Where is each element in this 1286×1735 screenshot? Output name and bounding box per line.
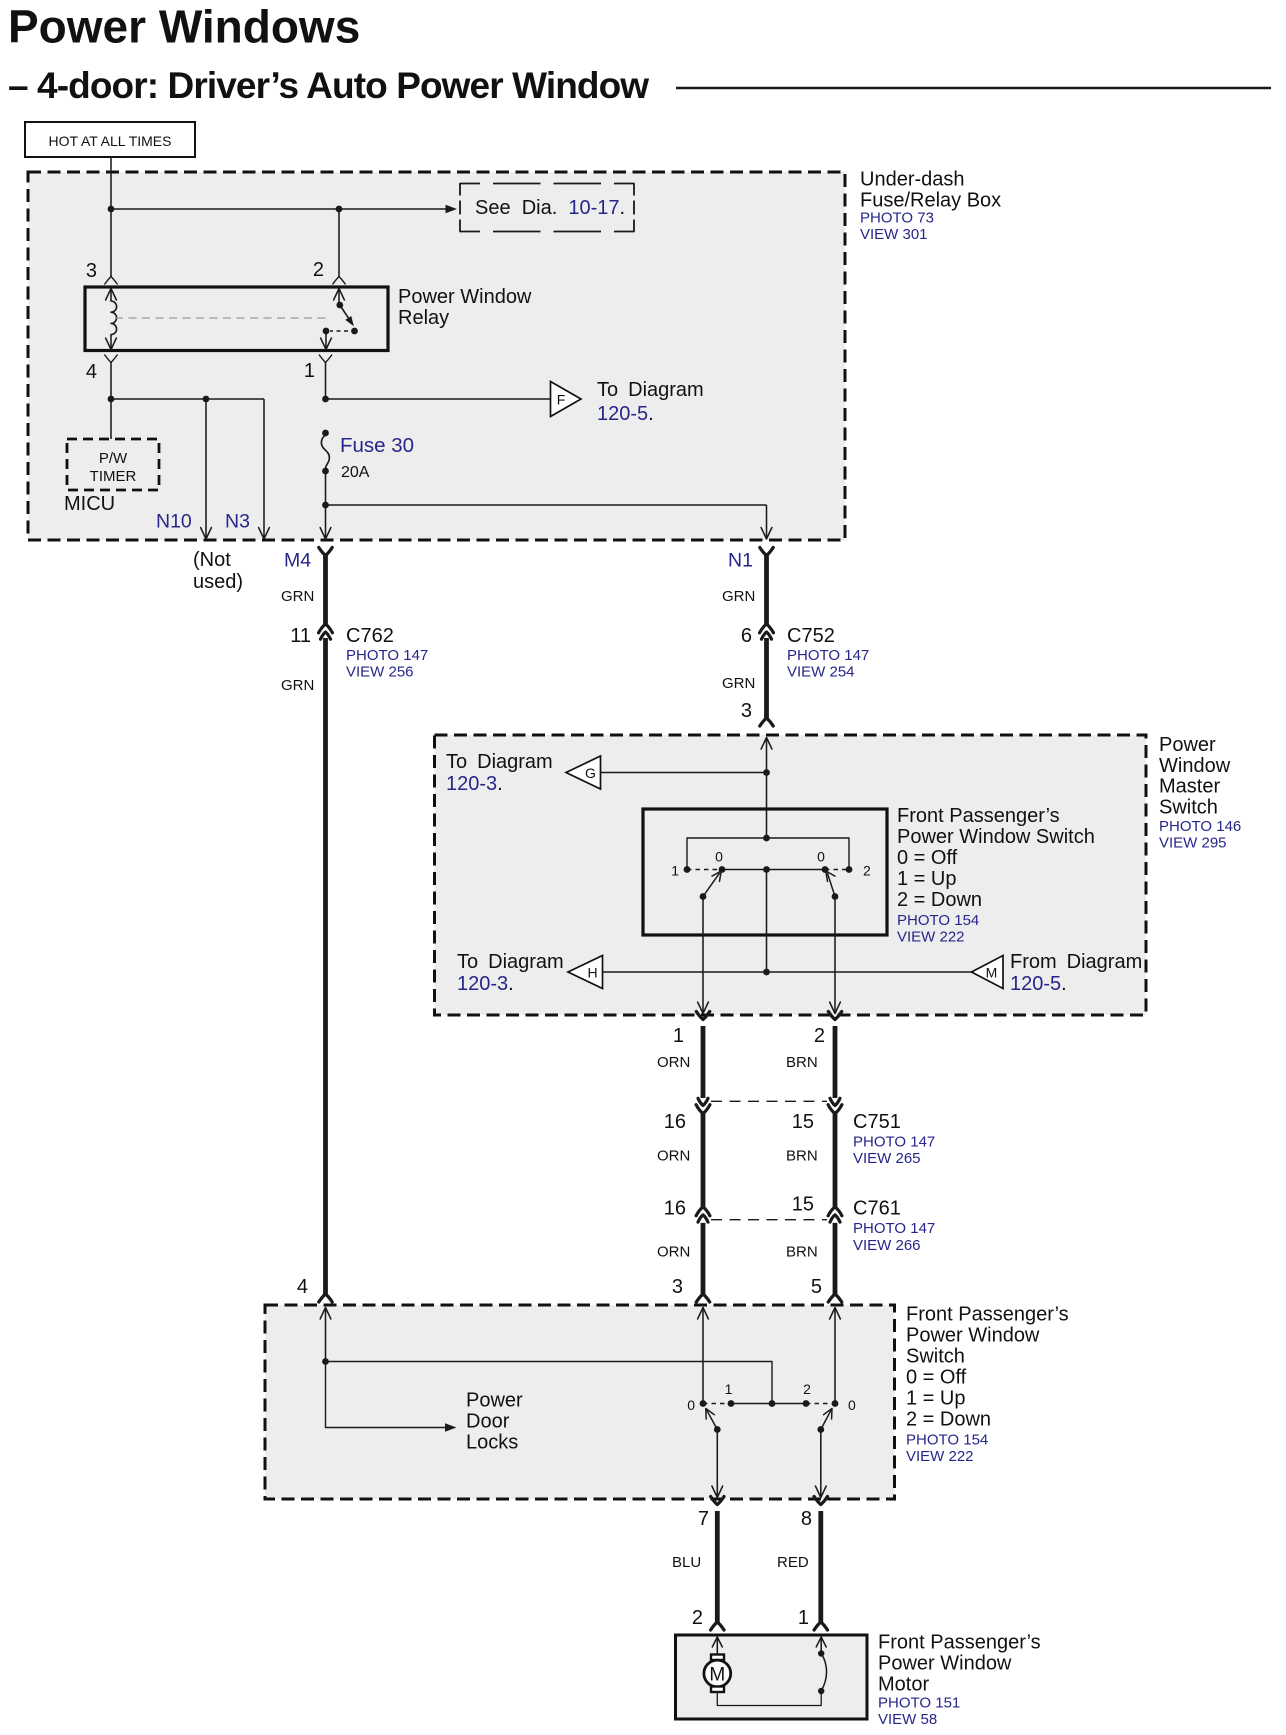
relay internal dashed link	[115, 317, 331, 319]
relay switch common node	[336, 302, 343, 309]
wire fuse to M4/N1 branch	[325, 471, 327, 539]
svg-text:PHOTO 147: PHOTO 147	[853, 1134, 935, 1151]
svg-text:PHOTO 146: PHOTO 146	[1159, 818, 1241, 835]
svg-text:Locks: Locks	[466, 1432, 518, 1454]
svg-text:0 = Off: 0 = Off	[897, 847, 958, 869]
svg-text:G: G	[585, 765, 596, 781]
contact 1 node	[684, 866, 691, 873]
contact 2 node	[846, 866, 853, 873]
power door locks branch	[326, 1362, 446, 1428]
svg-text:C762: C762	[346, 625, 394, 647]
master switch pin 3 entry arrow	[761, 738, 772, 750]
power window relay box	[85, 287, 388, 351]
cap into motor right	[814, 1622, 827, 1630]
svg-text:PHOTO 147: PHOTO 147	[346, 647, 428, 664]
triangle connector M	[972, 956, 1004, 989]
svg-text:15: 15	[792, 1194, 814, 1216]
M4 exit arrow	[320, 528, 331, 540]
master switch pin 2 cap	[828, 1012, 841, 1020]
relay switch pin 2 entry arrow	[334, 289, 345, 301]
svg-text:Power Window: Power Window	[906, 1325, 1040, 1347]
svg-text:BRN: BRN	[786, 1244, 818, 1261]
svg-text:VIEW 265: VIEW 265	[853, 1150, 921, 1167]
wire BRN C751 to C761	[833, 1114, 838, 1208]
svg-text:PHOTO 154: PHOTO 154	[897, 912, 979, 929]
svg-text:Switch: Switch	[1159, 796, 1218, 818]
svg-text:Power: Power	[466, 1390, 523, 1412]
svg-text:Master: Master	[1159, 776, 1220, 798]
wire GRN C752 to master switch	[764, 638, 769, 718]
pin 5 entry arrow	[830, 1308, 841, 1320]
svg-text:Power Window: Power Window	[398, 286, 532, 308]
node junction relay pin 2	[336, 206, 343, 213]
svg-text:N3: N3	[225, 511, 250, 533]
connector C751 left	[698, 1098, 708, 1105]
wire RED to motor	[818, 1511, 823, 1622]
N1 exit arrow	[761, 528, 772, 540]
svg-text:Fuse/Relay Box: Fuse/Relay Box	[860, 190, 1001, 212]
svg-text:16: 16	[664, 1111, 686, 1133]
relay switch movable contact	[340, 305, 351, 322]
svg-text:3: 3	[741, 700, 752, 722]
contact 0 left node	[700, 1400, 707, 1407]
wire relay pin 4 down	[110, 363, 112, 400]
svg-text:GRN: GRN	[281, 588, 314, 605]
svg-text:To Diagram: To Diagram	[446, 751, 553, 773]
fuse 30 20A	[322, 430, 329, 437]
subtitle rule	[676, 87, 1271, 90]
svg-text:M: M	[709, 1665, 725, 1686]
wire to diagram F triangle	[326, 398, 551, 400]
pin 8 cap	[814, 1497, 827, 1505]
connector C762	[319, 624, 333, 633]
connector C751 dashed pairing	[711, 1100, 827, 1102]
node junction to See Dia	[108, 206, 115, 213]
connector M4 cap	[319, 548, 332, 556]
wire ORN C751 to C761	[701, 1114, 706, 1208]
svg-text:120-3.: 120-3.	[457, 973, 514, 995]
pin 3 entry arrow	[698, 1308, 709, 1320]
left switch arm	[707, 1410, 718, 1429]
svg-text:3: 3	[672, 1276, 683, 1298]
svg-text:PHOTO 147: PHOTO 147	[787, 647, 869, 664]
relay switch contact node	[351, 328, 358, 335]
svg-text:2: 2	[814, 1025, 825, 1047]
svg-text:M4: M4	[284, 550, 311, 572]
dashed link 1-0	[687, 869, 722, 871]
svg-text:C761: C761	[853, 1198, 901, 1220]
center row wire	[722, 869, 825, 871]
wire from HOT AT ALL TIMES to relay pin 3	[110, 157, 112, 277]
svg-text:5: 5	[811, 1276, 822, 1298]
wire N3 (not used)	[263, 399, 265, 539]
right arm wire down	[834, 897, 836, 1014]
relay switch pin 1 exit arrow	[325, 331, 327, 349]
svg-text:Switch: Switch	[906, 1346, 965, 1368]
wire to triangle G	[601, 772, 767, 774]
wire BRN to C751	[833, 1026, 838, 1098]
row wire	[731, 1403, 806, 1405]
triangle connector F	[551, 382, 582, 417]
svg-text:20A: 20A	[341, 464, 370, 481]
P/W TIMER box	[67, 439, 159, 490]
contact 2 node	[803, 1400, 810, 1407]
svg-text:ORN: ORN	[657, 1148, 690, 1165]
svg-text:0 = Off: 0 = Off	[906, 1367, 967, 1389]
connector cap into lower switch	[319, 1294, 332, 1302]
triangle connector H	[568, 956, 603, 989]
wire BRN C761 to passenger switch	[833, 1223, 838, 1294]
svg-text:Power: Power	[1159, 734, 1216, 756]
svg-text:Window: Window	[1159, 755, 1231, 777]
svg-text:PHOTO 147: PHOTO 147	[853, 1220, 935, 1237]
svg-text:1: 1	[671, 863, 679, 879]
svg-text:ORN: ORN	[657, 1054, 690, 1071]
cap into lower switch left	[696, 1294, 709, 1302]
svg-text:1 = Up: 1 = Up	[906, 1388, 965, 1410]
svg-text:BRN: BRN	[786, 1148, 818, 1165]
front passenger power window motor box	[676, 1635, 868, 1719]
wire GRN M4 to C762	[323, 553, 328, 625]
node center	[763, 969, 770, 976]
svg-text:6: 6	[741, 625, 752, 647]
left switch arm	[703, 873, 720, 897]
svg-text:BRN: BRN	[786, 1054, 818, 1071]
relay switch pin 1 node	[323, 328, 330, 335]
svg-text:4: 4	[86, 361, 97, 383]
connector C761 right	[828, 1207, 842, 1216]
right switch arm	[827, 873, 835, 897]
svg-text:GRN: GRN	[722, 588, 755, 605]
svg-text:RED: RED	[777, 1554, 809, 1571]
cap into lower switch right	[828, 1294, 841, 1302]
relay pin 4 fork	[105, 355, 117, 363]
node pin4 branch	[108, 396, 115, 403]
node to diagram F	[322, 396, 329, 403]
svg-text:1: 1	[304, 360, 315, 382]
connector C751 right	[830, 1098, 840, 1105]
HOT AT ALL TIMES box	[25, 122, 195, 157]
branch wire to N1	[326, 504, 767, 506]
svg-text:1: 1	[798, 1607, 809, 1629]
wire ORN C761 to passenger switch	[701, 1223, 706, 1294]
svg-text:2: 2	[692, 1607, 703, 1629]
svg-text:M: M	[986, 965, 998, 981]
svg-text:Under-dash: Under-dash	[860, 169, 965, 191]
svg-text:MICU: MICU	[64, 493, 115, 515]
svg-text:N10: N10	[156, 511, 192, 533]
svg-text:PHOTO 73: PHOTO 73	[860, 210, 934, 227]
svg-text:From Diagram: From Diagram	[1010, 951, 1142, 973]
svg-text:2 = Down: 2 = Down	[897, 889, 982, 911]
svg-text:0: 0	[848, 1397, 856, 1413]
See Dia. 10-17 box	[460, 184, 634, 232]
svg-text:VIEW 301: VIEW 301	[860, 226, 928, 243]
pin 8 wire down	[820, 1430, 822, 1498]
wire BLU to motor	[715, 1511, 720, 1622]
svg-text:120-5.: 120-5.	[597, 403, 654, 425]
svg-text:N1: N1	[728, 550, 753, 572]
svg-text:VIEW 266: VIEW 266	[853, 1237, 921, 1254]
power window master switch box	[435, 735, 1147, 1015]
wire to See Dia. 10-17	[111, 208, 446, 210]
svg-text:TIMER: TIMER	[90, 468, 137, 485]
svg-text:120-3.: 120-3.	[446, 773, 503, 795]
svg-text:– 4-door: Driver’s Auto Power: – 4-door: Driver’s Auto Power Window	[8, 65, 649, 106]
svg-text:used): used)	[193, 571, 243, 593]
svg-text:Front Passenger’s: Front Passenger’s	[878, 1632, 1041, 1654]
svg-text:HOT AT ALL TIMES: HOT AT ALL TIMES	[49, 133, 172, 149]
svg-text:F: F	[557, 392, 566, 408]
svg-text:1 = Up: 1 = Up	[897, 868, 956, 890]
svg-text:C752: C752	[787, 625, 835, 647]
motor switch node top	[818, 1650, 824, 1656]
motor M1	[711, 1655, 724, 1661]
under-dash fuse/relay box	[28, 172, 845, 540]
bridge wire to switch	[326, 1362, 773, 1404]
connector C761 dashed pairing	[711, 1219, 827, 1221]
connector cap into master switch	[760, 718, 773, 726]
svg-text:Power Window: Power Window	[878, 1653, 1012, 1675]
node bridge	[769, 1400, 776, 1407]
svg-text:To Diagram: To Diagram	[597, 379, 704, 401]
svg-text:Power Window Switch: Power Window Switch	[897, 826, 1095, 848]
relay switch dashed actuating link	[330, 330, 348, 332]
svg-text:VIEW 295: VIEW 295	[1159, 835, 1227, 852]
svg-text:2: 2	[863, 863, 871, 879]
front passenger power window switch box	[265, 1305, 895, 1499]
svg-text:Relay: Relay	[398, 307, 449, 329]
motor pin 1 entry arrow	[816, 1637, 826, 1647]
wire down to inner switch	[766, 773, 768, 839]
dashed link 0-2	[825, 869, 849, 871]
node N10 branch	[203, 396, 210, 403]
svg-text:Fuse 30: Fuse 30	[340, 434, 414, 457]
motor pin 2 entry arrow	[712, 1637, 722, 1647]
contact 0 right node	[832, 1400, 839, 1407]
svg-text:VIEW 222: VIEW 222	[897, 929, 965, 946]
connector C752	[760, 624, 774, 633]
master switch pin 1 cap	[696, 1012, 709, 1020]
svg-text:0: 0	[687, 1397, 695, 1413]
pin 7 cap	[711, 1497, 724, 1505]
wire to relay pin 2	[338, 209, 340, 277]
svg-text:8: 8	[801, 1508, 812, 1530]
wire into P/W timer	[110, 399, 112, 439]
contact 1 node	[728, 1400, 735, 1407]
dashed link	[703, 1403, 731, 1405]
svg-text:(Not: (Not	[193, 549, 231, 571]
to/from diagram H-M wire	[603, 971, 972, 973]
wire N10 (not used)	[205, 399, 207, 539]
svg-text:See Dia. 10-17.: See Dia. 10-17.	[475, 197, 625, 219]
svg-text:4: 4	[297, 1276, 308, 1298]
connector N1 cap	[760, 548, 773, 556]
wire ORN to C751	[701, 1026, 706, 1098]
relay coil	[111, 301, 117, 335]
connector C761 left	[696, 1207, 710, 1216]
svg-text:15: 15	[792, 1111, 814, 1133]
right switch arm	[821, 1410, 831, 1429]
svg-text:P/W: P/W	[99, 450, 128, 467]
svg-text:1: 1	[725, 1381, 733, 1397]
svg-text:0: 0	[715, 849, 723, 865]
svg-text:ORN: ORN	[657, 1244, 690, 1261]
svg-text:To Diagram: To Diagram	[457, 951, 564, 973]
wire GRN N1 to C752	[764, 553, 769, 625]
motor internal contact arc	[821, 1654, 826, 1692]
svg-text:GRN: GRN	[722, 675, 755, 692]
svg-text:2: 2	[313, 259, 324, 281]
svg-text:Front Passenger’s: Front Passenger’s	[897, 805, 1060, 827]
svg-text:Door: Door	[466, 1411, 510, 1433]
left arm wire down	[702, 897, 704, 1014]
relay pin 1 fork	[319, 355, 331, 363]
svg-text:11: 11	[290, 625, 311, 647]
svg-text:2: 2	[803, 1381, 811, 1397]
inner switch bridge node	[763, 835, 770, 842]
svg-text:VIEW 256: VIEW 256	[346, 664, 414, 681]
svg-text:VIEW 222: VIEW 222	[906, 1448, 974, 1465]
svg-text:2 = Down: 2 = Down	[906, 1409, 991, 1431]
motor switch node bottom	[818, 1688, 824, 1694]
relay coil pin 3 entry arrow	[106, 289, 117, 301]
svg-text:3: 3	[86, 260, 97, 282]
svg-text:C751: C751	[853, 1111, 901, 1133]
svg-text:Front Passenger’s: Front Passenger’s	[906, 1304, 1069, 1326]
branch wire to N10/N3	[111, 398, 264, 400]
svg-text:16: 16	[664, 1198, 686, 1220]
wire GRN C762 down to passenger switch	[323, 638, 328, 1294]
triangle connector G	[566, 756, 601, 789]
relay coil pin 4 exit arrow	[110, 335, 112, 350]
svg-text:1: 1	[673, 1025, 684, 1047]
svg-text:120-5.: 120-5.	[1010, 973, 1067, 995]
pin 7 wire down	[716, 1430, 718, 1498]
svg-text:GRN: GRN	[281, 677, 314, 694]
dashed link	[806, 1403, 835, 1405]
node to diagram G	[763, 769, 770, 776]
svg-text:VIEW 58: VIEW 58	[878, 1711, 937, 1728]
svg-text:0: 0	[817, 849, 825, 865]
center node	[763, 866, 770, 873]
node branch to N1	[322, 502, 329, 509]
pin 4 entry arrow	[320, 1308, 331, 1320]
svg-text:Power Windows: Power Windows	[8, 1, 360, 53]
wire relay pin1 down to fuse	[325, 363, 327, 400]
front passenger power window switch inner box	[643, 809, 887, 935]
contact 0 left node	[719, 866, 726, 873]
svg-text:7: 7	[698, 1508, 709, 1530]
center wire to H/M line	[766, 870, 768, 973]
motor return wire	[717, 1691, 821, 1706]
svg-text:PHOTO 151: PHOTO 151	[878, 1695, 960, 1712]
svg-text:H: H	[587, 965, 597, 981]
svg-text:PHOTO 154: PHOTO 154	[906, 1432, 988, 1449]
svg-text:VIEW 254: VIEW 254	[787, 664, 855, 681]
inner switch bridge	[687, 838, 849, 870]
contact 0 right node	[822, 866, 829, 873]
svg-text:Motor: Motor	[878, 1674, 929, 1696]
cap into motor left	[711, 1622, 724, 1630]
node pin 4 branch	[322, 1358, 329, 1365]
svg-text:BLU: BLU	[672, 1554, 701, 1571]
